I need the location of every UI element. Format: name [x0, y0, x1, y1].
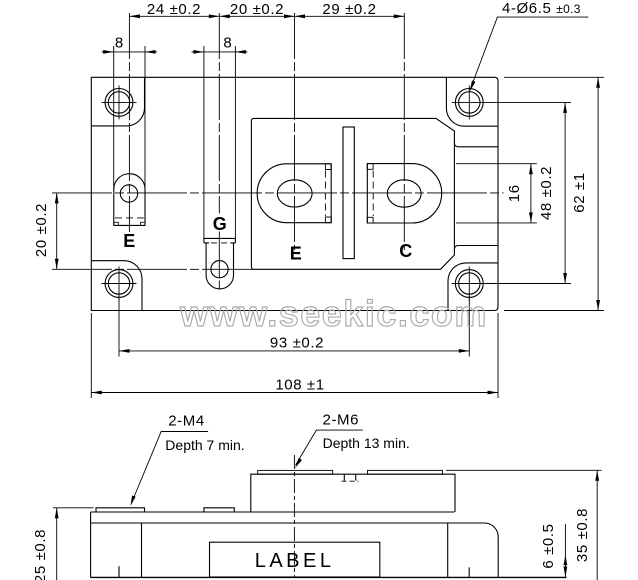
svg-text:Depth 7 min.: Depth 7 min.: [165, 437, 244, 453]
side view cap strip right: [368, 470, 443, 474]
dimension 20 +-0.2 top: [219, 14, 294, 18]
svg-text:G: G: [213, 214, 227, 234]
svg-text:www.seekic.com: www.seekic.com: [179, 293, 488, 334]
terminal G lug: [204, 238, 236, 243]
dimension 20 +-0.2 left: [55, 193, 59, 269]
svg-text:E: E: [290, 244, 302, 264]
bottom-left mounting ear: [91, 261, 142, 311]
svg-text:108 ±1: 108 ±1: [275, 377, 324, 394]
dimension 24 +-0.2: [129, 14, 219, 18]
leader 2-M4: [129, 432, 208, 507]
side view bottom edge: [91, 576, 567, 578]
centerline G lug: [218, 13, 220, 293]
mounting hole top-left: [102, 85, 137, 119]
svg-text:Depth 13 min.: Depth 13 min.: [323, 435, 410, 451]
svg-text:25 ±0.8: 25 ±0.8: [32, 529, 49, 580]
side view centerline: [293, 455, 295, 577]
side view pad G: [204, 508, 234, 512]
svg-text:29 ±0.2: 29 ±0.2: [322, 1, 376, 18]
side view feet: [119, 523, 469, 577]
side view baseplate: [91, 512, 499, 577]
leader 2-M6: [293, 430, 362, 469]
svg-text:LABEL: LABEL: [255, 550, 335, 572]
svg-text:C: C: [399, 241, 412, 261]
bottom-right mounting ear: [448, 263, 498, 311]
mounting hole bottom-left: [102, 267, 137, 301]
label box: [210, 542, 380, 577]
svg-text:8: 8: [115, 35, 124, 52]
dimension 108 +-1: [91, 313, 498, 398]
dimension 35 +-0.8: [446, 470, 602, 580]
svg-text:20 ±0.2: 20 ±0.2: [33, 203, 50, 257]
dimension 8 left: [102, 46, 158, 189]
side view cap strip left: [258, 470, 333, 474]
right side tab: [454, 143, 498, 250]
svg-text:16: 16: [506, 184, 523, 202]
dimension 6 +-0.5: [564, 524, 568, 577]
centerline G horizontal: [52, 268, 254, 270]
svg-text:35 ±0.8: 35 ±0.8: [574, 508, 591, 562]
dimension 29 +-0.2: [295, 14, 405, 18]
terminal E plate: [257, 164, 331, 223]
mounting hole bottom-right: [455, 267, 483, 301]
side view block: [251, 474, 455, 512]
svg-text:2-M4: 2-M4: [168, 413, 205, 430]
svg-text:48 ±0.2: 48 ±0.2: [538, 166, 555, 220]
svg-text:20 ±0.2: 20 ±0.2: [230, 1, 284, 18]
dimension 93 +-0.2: [119, 296, 469, 357]
svg-text:93 ±0.2: 93 ±0.2: [270, 335, 324, 352]
side view notch: [344, 474, 355, 480]
dimension 8 G: [192, 46, 248, 238]
leader 4-dia6.5: [468, 17, 588, 92]
dimension 48 +-0.2: [452, 102, 571, 283]
svg-text:24 ±0.2: 24 ±0.2: [147, 1, 201, 18]
centerline terminal C: [403, 13, 405, 250]
svg-text:62 ±1: 62 ±1: [571, 172, 588, 212]
top-right mounting ear: [446, 77, 498, 126]
dimension 25 +-0.8: [53, 508, 94, 580]
terminal C plate: [367, 164, 441, 223]
dimension 62 +-1: [504, 77, 604, 310]
mounting hole top-right: [455, 85, 483, 119]
centerline terminal E: [294, 13, 296, 250]
dimension 16: [456, 164, 537, 223]
svg-text:8: 8: [223, 35, 232, 52]
terminal E lug (slot): [114, 174, 145, 226]
svg-text:4-Ø6.5 ±0.3: 4-Ø6.5 ±0.3: [502, 0, 581, 17]
top-left mounting ear: [91, 77, 144, 126]
centerline E lug: [128, 13, 130, 232]
horizontal centerline: [52, 192, 504, 194]
svg-text:E: E: [123, 231, 135, 251]
module body outline: [91, 77, 498, 310]
side view pad M4: [96, 508, 145, 512]
divider bar: [343, 127, 354, 259]
raised plateau: [251, 118, 454, 269]
svg-text:2-M6: 2-M6: [323, 412, 360, 429]
svg-text:6 ±0.5: 6 ±0.5: [540, 523, 557, 568]
